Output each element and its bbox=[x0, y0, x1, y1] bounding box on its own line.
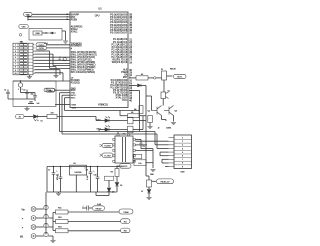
wire vertical jog B bbox=[52, 54, 54, 65]
svg-text:AT89C51: AT89C51 bbox=[98, 104, 109, 107]
junction C8 rail bbox=[60, 166, 61, 167]
ground below jog bbox=[53, 76, 58, 78]
switch block S1 position ovals bbox=[15, 44, 28, 75]
jack pad circle on bus bbox=[44, 232, 48, 236]
wire horiz y148 bbox=[141, 148, 153, 150]
wire vertical jog jacks bbox=[52, 213, 54, 231]
wire C8 bottom bbox=[60, 178, 62, 192]
connector J2 DB9 body bbox=[174, 135, 192, 169]
wire C11 right bbox=[89, 207, 92, 209]
svg-text:P_RXD: P_RXD bbox=[104, 146, 111, 148]
wire R3 to pad bbox=[148, 77, 154, 79]
node VCC oval label top-left bbox=[24, 12, 33, 16]
wire R10 to oval bbox=[152, 180, 157, 182]
resistor R6 box bbox=[128, 114, 140, 118]
svg-text:D1: D1 bbox=[41, 120, 43, 122]
resistor R7 box bbox=[128, 117, 134, 124]
capacitor C6 box bbox=[134, 160, 146, 166]
oscillator sub-circuit box bbox=[13, 81, 56, 107]
wire C8 top bbox=[60, 167, 62, 178]
wire to bottom ground bbox=[52, 236, 54, 240]
IC U1 left misc pin names bbox=[71, 77, 80, 99]
wire C5 top bbox=[140, 139, 142, 143]
wire text stub A bbox=[55, 104, 71, 106]
resistor R3 box bbox=[136, 76, 148, 80]
junction crystal top bbox=[20, 80, 21, 81]
wire vertical jog A bbox=[49, 51, 51, 69]
IC U1 port P3 pin names and pin numbers bbox=[110, 79, 132, 102]
wire c4 stub bbox=[28, 103, 34, 105]
wire reset box to ground stub bbox=[62, 30, 66, 32]
wire jog from rail y134 bbox=[156, 134, 158, 149]
svg-text:30p: 30p bbox=[31, 93, 34, 95]
capacitor bbox=[59, 177, 63, 178]
node label CE5 oval bbox=[19, 25, 29, 29]
wire LED2 to R7 bbox=[109, 129, 128, 131]
wire corner left bbox=[96, 195, 109, 197]
svg-text:VCC: VCC bbox=[123, 166, 128, 168]
wire R10 top stub bbox=[148, 176, 150, 180]
wire C9 bottom bbox=[90, 173, 92, 192]
LED D3 bbox=[105, 117, 110, 123]
wire R8 out bbox=[133, 129, 143, 131]
wire bus down B bbox=[61, 95, 63, 134]
svg-text:TXD2: TXD2 bbox=[72, 107, 76, 109]
svg-text:1: 1 bbox=[18, 89, 19, 91]
IC U1 control pin names ALE PSEN EA RST bbox=[121, 69, 132, 80]
wire stair 2 bbox=[161, 159, 163, 163]
wire row10 bbox=[35, 72, 64, 74]
svg-text:RXD: RXD bbox=[49, 90, 54, 92]
svg-text:18: 18 bbox=[59, 59, 61, 61]
ground bottom bbox=[50, 241, 55, 243]
transistor Q2 bbox=[152, 106, 162, 116]
resistor R11 box bbox=[56, 210, 69, 214]
wire jog LED2 bbox=[98, 130, 100, 132]
resistor R10 vertical box bbox=[147, 180, 152, 187]
wire C1 top lead bbox=[7, 90, 9, 93]
wire C2 bottom lead bbox=[26, 94, 28, 99]
ground power rail bbox=[56, 193, 61, 195]
wire U3 pin row3 bbox=[135, 149, 153, 151]
wire C10 bottom bbox=[97, 178, 99, 192]
resistor R12 box bbox=[56, 220, 69, 224]
ground near reset box bbox=[63, 41, 68, 43]
jack J4 circle bbox=[31, 216, 36, 221]
wire bus down C bbox=[64, 98, 66, 111]
svg-text:Q3: Q3 bbox=[175, 111, 177, 113]
wire jog A to U1 bbox=[50, 68, 71, 70]
svg-text:RXD/MISO: RXD/MISO bbox=[71, 46, 82, 48]
IC U1 AT89C51 body bbox=[70, 12, 128, 108]
wire vertical jog C bbox=[55, 67, 57, 72]
circle marker left of reset box bbox=[19, 34, 22, 37]
wire oval to U3 pin2 bbox=[112, 154, 114, 156]
component box x109 bbox=[105, 176, 114, 180]
svg-text:CPU: CPU bbox=[95, 16, 100, 18]
wire Q3 emitter down bbox=[173, 116, 175, 122]
junction C10 rail bbox=[97, 166, 98, 167]
IC U3 center strip bbox=[122, 137, 124, 162]
connector J2 row lines bbox=[174, 140, 192, 165]
node oval OUT1 bbox=[174, 74, 187, 78]
svg-text:P_TXD: P_TXD bbox=[105, 155, 112, 157]
wire U3 to DB9 row2 bbox=[135, 140, 168, 142]
capacitor bbox=[33, 96, 37, 97]
wire R9 to D5 bbox=[116, 177, 118, 183]
capacitor bbox=[96, 177, 100, 178]
wire down bbox=[165, 120, 167, 122]
wire row1 to U1 bbox=[47, 44, 71, 46]
wire crystal stem bottom bbox=[20, 87, 22, 92]
svg-text:9: 9 bbox=[15, 70, 16, 72]
IC U1 left pin names ALE XTAL bbox=[71, 25, 83, 33]
wire rail oscillator top bbox=[13, 80, 70, 82]
wire U1 pin to x139 bbox=[129, 89, 140, 91]
jack J5 circle bbox=[31, 225, 36, 230]
wire U1 to D2 bbox=[129, 84, 137, 86]
ground below D7 bbox=[146, 198, 151, 200]
wire C10 top bbox=[97, 167, 99, 178]
node oval PWM bbox=[119, 209, 133, 214]
wire jog LED1 bbox=[95, 117, 97, 121]
svg-text:R9: R9 bbox=[111, 171, 113, 173]
reset circuit box bbox=[29, 29, 62, 41]
junction C7 rail bbox=[53, 166, 54, 167]
wire row7 bbox=[35, 63, 71, 65]
resistor RFM inside reset box bbox=[33, 31, 42, 35]
wire to DB9 row6 bbox=[160, 155, 169, 157]
ground below oscillator box bbox=[24, 109, 29, 111]
jack pad circle on bus bbox=[44, 223, 48, 227]
node oval VCC power bbox=[120, 164, 132, 169]
wire base feed Q2 bbox=[151, 96, 153, 111]
wire T0 pin bbox=[65, 97, 71, 99]
svg-text:RELAY_5V: RELAY_5V bbox=[161, 181, 171, 184]
wire C7 bottom bbox=[53, 174, 55, 192]
wire D7 down bbox=[148, 193, 150, 197]
svg-text:0.1u: 0.1u bbox=[138, 163, 141, 165]
svg-text:Q4: Q4 bbox=[112, 192, 114, 194]
wire vertical jog D bbox=[59, 70, 61, 75]
junction C9 rail bbox=[90, 166, 91, 167]
wire to DB9 row3 bbox=[155, 144, 169, 146]
wire jack2 right bbox=[48, 217, 53, 219]
svg-text:7: 7 bbox=[15, 63, 16, 65]
wire to DB9 row9 bbox=[165, 166, 169, 168]
node oval P_TXD bbox=[102, 153, 113, 157]
svg-text:P3.1(A1): P3.1(A1) bbox=[71, 82, 80, 85]
wire C3 bottom lead bbox=[34, 97, 36, 101]
svg-text:P0.7(AD7)/IO7: P0.7(AD7)/IO7 bbox=[110, 32, 128, 35]
wire to R12 bbox=[53, 221, 56, 223]
node oval IN1 bbox=[121, 219, 131, 224]
svg-text:EA/VPP: EA/VPP bbox=[71, 13, 80, 16]
svg-text:C5: C5 bbox=[143, 146, 145, 148]
wire U3 pin row2 bbox=[135, 144, 147, 146]
wire vertical jog E bbox=[62, 73, 64, 81]
svg-text:1: 1 bbox=[15, 45, 16, 47]
wire Q1 to Q3 top bbox=[162, 104, 164, 106]
wire R5 down bbox=[149, 123, 151, 127]
ground below R5 bbox=[147, 127, 152, 129]
wire bottom tie bbox=[8, 98, 35, 100]
wire crystal to C3 bbox=[21, 92, 36, 94]
diode D1 with arrows bbox=[34, 115, 39, 121]
svg-text:4: 4 bbox=[15, 54, 16, 56]
node oval RXD bbox=[46, 88, 55, 92]
wire long rail y131 bbox=[60, 131, 156, 133]
wire down x109 bbox=[108, 180, 110, 187]
wire R2 to LED section bbox=[57, 116, 96, 118]
capacitor C11 bbox=[87, 206, 89, 211]
node oval IN2 bbox=[121, 228, 131, 233]
svg-text:RELAY: RELAY bbox=[170, 67, 176, 70]
wire jack to bus bbox=[36, 208, 44, 210]
capacitor bbox=[29, 102, 32, 103]
wire rail to U3 top pin1 bbox=[117, 132, 119, 134]
wire crystal stem top bbox=[20, 81, 22, 83]
svg-text:IN2: IN2 bbox=[124, 231, 127, 233]
wire vertical x139 bbox=[139, 90, 141, 131]
wire R8 jog up bbox=[142, 116, 144, 130]
wire diode to R box bbox=[38, 116, 48, 118]
svg-text:10: 10 bbox=[15, 73, 17, 75]
svg-text:PSEN: PSEN bbox=[71, 20, 78, 22]
wire jack to bus bbox=[36, 217, 44, 219]
resistor R13 box bbox=[56, 229, 69, 233]
junction row5 bbox=[59, 57, 60, 58]
wire oval to U3 pin bbox=[112, 145, 114, 147]
wire jog C to ground bbox=[55, 72, 57, 76]
wire row6 bbox=[35, 59, 71, 61]
diode D2 bbox=[138, 84, 142, 87]
component oval CRY1 bbox=[36, 43, 47, 47]
node oval XTAL bbox=[44, 88, 55, 92]
wire R9 top bbox=[116, 167, 118, 169]
wire jog B horizontal bbox=[53, 65, 70, 67]
diode inside reset box bbox=[48, 32, 56, 34]
wire RXD to U1 bbox=[55, 89, 70, 91]
wire C9 top bbox=[90, 167, 92, 173]
wire row2 to U1 bbox=[47, 47, 71, 49]
IC U1 port P0 pin names and pin numbers bbox=[110, 13, 133, 34]
wire D5 down bbox=[116, 186, 118, 192]
test point circle TP bbox=[63, 58, 66, 61]
wire R7 out bbox=[133, 120, 146, 122]
wire row5 bbox=[35, 56, 71, 58]
capacitor bbox=[6, 92, 10, 93]
wire D2 to bus bbox=[141, 84, 146, 86]
transistor Q1 bbox=[161, 92, 169, 99]
wire relay to oval bbox=[167, 75, 173, 77]
diode D7 bbox=[147, 190, 151, 194]
svg-text:COM1: COM1 bbox=[166, 128, 171, 130]
svg-text:PWM: PWM bbox=[124, 212, 129, 214]
IC U1 left long function pin names bbox=[71, 51, 97, 74]
IC U1 left medium pin names bbox=[71, 43, 82, 50]
wire row3 bbox=[35, 50, 50, 52]
diode D5 LED power bbox=[115, 183, 119, 187]
wire INT pin bbox=[62, 94, 70, 96]
relay K1 coil box bbox=[162, 71, 167, 80]
wire C7 top bbox=[53, 167, 55, 173]
crystal Y1 circle bbox=[18, 83, 22, 87]
wire row9 bbox=[35, 69, 61, 71]
IC U3 body bbox=[115, 136, 133, 163]
connector J2 pin digits bbox=[182, 137, 184, 168]
svg-text:C1: C1 bbox=[4, 89, 6, 91]
svg-text:SPI.CS/ADC(PWM4): SPI.CS/ADC(PWM4) bbox=[71, 71, 95, 74]
resistor R4 vertical box bbox=[139, 106, 143, 114]
wire R10 to D7 bbox=[148, 187, 150, 189]
svg-text:IN1: IN1 bbox=[124, 221, 127, 223]
wire TXD pin bbox=[60, 92, 71, 94]
wire jog to Q3 bbox=[162, 119, 167, 121]
node oval P_RXD bbox=[102, 143, 113, 147]
wire vertical bus x146 bbox=[145, 85, 147, 176]
wire R11 to oval bbox=[68, 211, 119, 213]
wire to R13 bbox=[53, 230, 56, 232]
wire vertical tie bbox=[27, 14, 29, 19]
svg-text:RELAY: RELAY bbox=[96, 207, 103, 210]
svg-text:5: 5 bbox=[15, 57, 16, 59]
wire stair 1 bbox=[159, 152, 161, 156]
wire stub bbox=[134, 160, 135, 162]
wire Q2 emitter down bbox=[161, 116, 163, 120]
ground below switch block bbox=[27, 77, 32, 79]
wire rail to R6 bbox=[120, 115, 128, 117]
svg-text:29: 29 bbox=[66, 19, 68, 21]
wire jack to bus bbox=[36, 226, 44, 228]
wire vertical x153 bbox=[152, 149, 154, 168]
wire bus down to jacks bbox=[45, 192, 47, 235]
junction R9 rail bbox=[116, 166, 117, 167]
wire jack3 right bbox=[48, 226, 53, 228]
svg-text:R4: R4 bbox=[134, 109, 136, 111]
wire R6 out bbox=[139, 115, 146, 117]
wire jack to bus bbox=[36, 235, 44, 237]
wire to DB9 row5 bbox=[160, 151, 169, 153]
svg-text:Q1: Q1 bbox=[168, 90, 170, 92]
wire EA to U1 bbox=[32, 13, 70, 15]
component box small bbox=[134, 154, 142, 158]
capacitor bbox=[25, 92, 29, 93]
wire R12 to oval bbox=[68, 221, 121, 223]
wire to DB9 row7 bbox=[162, 158, 169, 160]
svg-text:OUT1: OUT1 bbox=[177, 77, 183, 79]
wire U3 pin to C5 bbox=[135, 138, 141, 140]
wire jog from rail y131 bbox=[154, 132, 156, 145]
svg-text:C10: C10 bbox=[94, 174, 97, 176]
wire U1 to R3 bbox=[129, 77, 136, 79]
wire C11 left bbox=[82, 207, 87, 209]
jack pad circle on bus bbox=[44, 205, 48, 209]
wire to DB9 row4 bbox=[157, 148, 169, 150]
node oval RELAY_5V bbox=[157, 179, 174, 184]
svg-text:D5: D5 bbox=[120, 185, 122, 187]
wire C6 to vertical bbox=[146, 162, 153, 164]
wire jog from rail bbox=[119, 111, 121, 116]
wire +5V rail bbox=[47, 166, 119, 168]
wire to R11 bbox=[53, 212, 56, 214]
junction row6 bbox=[62, 60, 63, 61]
resistor R5 vertical box bbox=[148, 116, 153, 123]
svg-text:3: 3 bbox=[27, 19, 28, 21]
ground below x153 bbox=[150, 170, 155, 172]
wire to LED2 bbox=[99, 129, 105, 131]
wire R13 to oval bbox=[68, 230, 121, 232]
open circle pad bbox=[154, 77, 156, 79]
switch block S1 body bbox=[13, 43, 33, 75]
svg-text:C2: C2 bbox=[23, 89, 25, 91]
wire from bus x146 bbox=[146, 175, 149, 177]
svg-text:0.1uF: 0.1uF bbox=[87, 174, 89, 180]
wire up to rail bbox=[95, 192, 97, 196]
wire pad to relay coil bbox=[156, 77, 162, 79]
jack J3 circle bbox=[31, 207, 36, 212]
wire switch to ground bbox=[29, 75, 31, 77]
svg-text:LM7805: LM7805 bbox=[75, 172, 83, 174]
wire Q1 down bbox=[162, 99, 164, 105]
svg-text:INT1: INT1 bbox=[71, 98, 76, 100]
wire C3 top lead bbox=[34, 93, 36, 96]
jack pad circle on bus bbox=[44, 214, 48, 218]
capacitor bbox=[52, 173, 56, 174]
IC U1 left pin names EA RST PSEN bbox=[71, 13, 80, 21]
IC U3 left pin boxes bbox=[113, 134, 135, 163]
wire regulator gnd down bbox=[75, 175, 77, 192]
node oval IR input bbox=[16, 114, 25, 118]
switch block S1 right pin stubs bbox=[33, 45, 35, 73]
connector arrow P2 bbox=[100, 154, 103, 157]
wire rail left down bbox=[46, 167, 48, 193]
connector J2 pin stubs bbox=[169, 138, 175, 167]
resistor R9 vertical bbox=[115, 169, 119, 177]
wire IR to diode D1 bbox=[24, 116, 33, 118]
svg-text:XTAL1: XTAL1 bbox=[71, 30, 78, 33]
svg-text:Q2: Q2 bbox=[148, 111, 150, 113]
svg-text:3: 3 bbox=[15, 51, 16, 53]
svg-text:WR(P3.6)/C9: WR(P3.6)/C9 bbox=[112, 61, 128, 64]
wire C5 bottom bbox=[140, 145, 142, 149]
capacitor bbox=[139, 143, 142, 144]
svg-text:CRY2: CRY2 bbox=[39, 48, 44, 50]
component oval CRY2 bbox=[36, 46, 47, 50]
voltage regulator U2 bbox=[70, 165, 87, 175]
wire C2 top lead bbox=[26, 90, 28, 93]
svg-text:8: 8 bbox=[15, 67, 16, 69]
diode D6 bbox=[107, 188, 111, 192]
wire C1 bottom lead bbox=[7, 94, 9, 99]
svg-text:VCC: VCC bbox=[122, 99, 128, 102]
connector arrow P1 bbox=[100, 144, 103, 147]
svg-text:6: 6 bbox=[15, 60, 16, 62]
wire relay down to Q1 bbox=[163, 80, 165, 92]
wire to DB9 row8 bbox=[162, 162, 169, 164]
ground below Q3 bbox=[171, 123, 176, 125]
svg-text:D7: D7 bbox=[141, 191, 143, 193]
wire in reset box bbox=[42, 32, 48, 34]
svg-text:RFM: RFM bbox=[36, 33, 40, 35]
wire long rail y134 bbox=[62, 133, 157, 135]
wire stub ground bbox=[58, 192, 60, 193]
wire ground rail bottom bbox=[47, 191, 117, 193]
wire row8 bbox=[35, 66, 57, 68]
wire rail to U3 top pin2 bbox=[127, 133, 129, 135]
svg-text:2: 2 bbox=[15, 48, 16, 50]
wire RST to U1 bbox=[28, 16, 70, 18]
